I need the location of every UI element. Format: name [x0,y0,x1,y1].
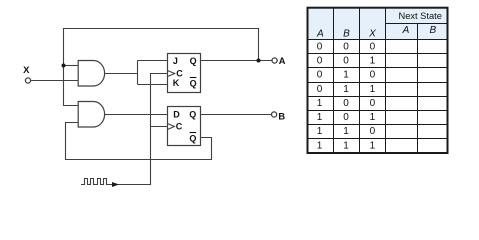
svg-text:D: D [173,109,180,119]
svg-text:A: A [279,56,286,66]
svg-text:0: 0 [343,56,349,67]
svg-text:Q: Q [189,109,196,119]
svg-text:1: 1 [343,84,349,95]
svg-text:Next State: Next State [398,11,441,21]
svg-text:0: 0 [317,56,323,67]
flip-flop U1 (J-K) box [168,54,201,93]
svg-text:1: 1 [370,84,376,95]
wire: G1 output to J/K tie [105,73,138,75]
wire: to J input [138,60,168,62]
terminal B [272,112,277,117]
svg-text:1: 1 [370,112,376,123]
svg-text:C: C [176,122,183,132]
wire: J/K tie vertical [137,61,139,85]
and-gate G2 (bottom) [78,102,104,128]
svg-text:1: 1 [343,70,349,81]
wire: node A feedback (up from node A, across top, down to G2 upper input) [64,29,259,106]
svg-text:A: A [316,29,324,40]
svg-text:Q: Q [190,79,197,89]
clock triangle U1 [168,71,175,77]
svg-text:K: K [173,78,180,88]
svg-text:0: 0 [343,98,349,109]
svg-text:0: 0 [317,41,323,52]
svg-text:X: X [368,29,376,40]
wire: U2 Q output to terminal B [201,114,272,116]
svg-text:X: X [23,65,30,76]
svg-text:1: 1 [317,98,323,109]
svg-text:B: B [429,25,436,36]
svg-text:A: A [402,25,410,36]
clock triangle U2 [168,124,175,130]
wire: to K input [138,84,168,86]
svg-text:1: 1 [317,140,323,151]
junction: node A [257,59,261,63]
svg-text:C: C [176,68,183,78]
svg-text:B: B [343,29,350,40]
svg-text:Q: Q [189,134,196,144]
truth table: header fill [309,9,447,40]
wire: X input to AND gate G1 lower input [31,80,78,82]
input terminal X [25,78,30,83]
wire: G2 output to D input [105,114,168,116]
wire: clock line to U1 C input [112,74,168,185]
svg-text:1: 1 [343,126,349,137]
wire: feedback branch to G1 upper input [64,65,79,67]
truth table: outer frame [308,8,448,153]
svg-text:J: J [173,56,178,66]
wire: U1 Q output to node A [201,60,273,62]
flip-flop U2 (D) box [168,107,201,146]
svg-text:1: 1 [343,140,349,151]
truth table: grid [309,8,447,153]
svg-text:0: 0 [370,126,376,137]
svg-text:1: 1 [370,140,376,151]
clock waveform symbol [81,179,112,185]
junction: feedback to G1 upper input [62,64,66,68]
svg-text:0: 0 [370,41,376,52]
svg-text:0: 0 [370,98,376,109]
svg-text:0: 0 [317,70,323,81]
wire: clock branch to U2 C input [151,126,168,128]
clock arrowhead [112,182,119,187]
truth table: header text [316,11,442,40]
svg-text:0: 0 [370,70,376,81]
svg-text:B: B [278,112,285,122]
svg-text:1: 1 [370,56,376,67]
truth table: data digits [317,41,376,151]
terminal A [272,58,277,63]
svg-text:0: 0 [343,112,349,123]
svg-text:Q: Q [190,56,197,66]
svg-text:0: 0 [317,84,323,95]
svg-text:0: 0 [343,41,349,52]
and-gate G1 (top) [78,61,104,87]
svg-text:1: 1 [317,112,323,123]
wire: U2 Qbar feedback to G2 lower input [66,123,212,160]
svg-text:1: 1 [317,126,323,137]
